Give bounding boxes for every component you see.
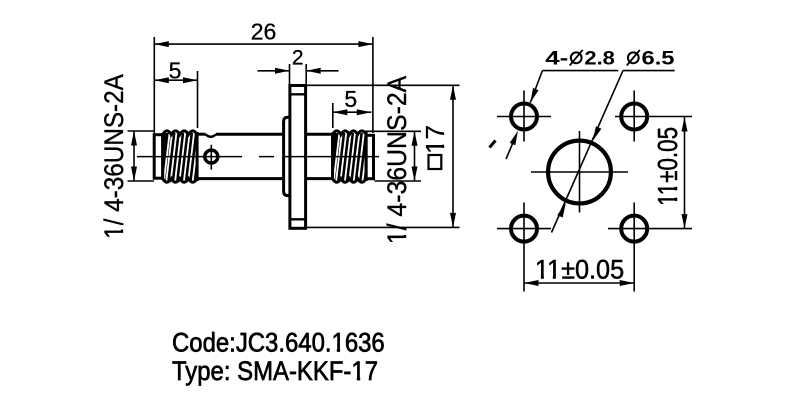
svg-text:17: 17 <box>420 125 450 154</box>
svg-text:11±0.05: 11±0.05 <box>535 256 624 285</box>
end view: hole top-right <box>615 91 692 142</box>
label 1/4-36UNS-2A left <box>100 73 129 239</box>
leader 4-dia2.8 <box>506 71 542 159</box>
dimension 26 <box>154 18 373 133</box>
svg-text:11±0.05: 11±0.05 <box>653 127 684 206</box>
dimension 11 vertical <box>653 117 688 229</box>
vent notch on body top <box>206 134 217 137</box>
svg-text:5: 5 <box>344 86 357 112</box>
right thread <box>333 131 369 182</box>
dimension square 17 <box>306 85 460 227</box>
svg-text:6.5: 6.5 <box>642 48 675 70</box>
label 4-dia2.8 <box>542 48 618 71</box>
end view: hole bottom-right <box>608 203 692 292</box>
dimension 5 right <box>333 86 372 128</box>
right thread diameter dimension <box>364 131 421 181</box>
label 1/4-36UNS-2A right <box>383 75 412 244</box>
svg-text:Type: SMA-KKF-17: Type: SMA-KKF-17 <box>172 357 378 387</box>
svg-text:26: 26 <box>251 18 277 44</box>
stray tick mark <box>490 141 496 148</box>
svg-text:2.8: 2.8 <box>584 48 615 70</box>
right end cap <box>366 135 373 178</box>
small hole on body <box>205 145 218 170</box>
code text <box>172 328 385 358</box>
svg-text:Code:JC3.640.1636: Code:JC3.640.1636 <box>172 328 385 358</box>
centerline side view <box>137 156 379 158</box>
end view: hole bottom-left <box>497 203 551 292</box>
dimension 2 (flange) <box>258 47 339 84</box>
label dia6.5 <box>623 48 675 71</box>
svg-text:1/ 4-36UNS-2A: 1/ 4-36UNS-2A <box>100 73 129 239</box>
svg-text:2: 2 <box>292 47 304 70</box>
body left section <box>197 134 285 178</box>
body right section <box>306 134 333 178</box>
svg-text:5: 5 <box>169 58 182 84</box>
dimension 5 left <box>154 58 197 129</box>
leader dia6.5 <box>552 71 624 233</box>
end view: center hole <box>531 131 628 213</box>
flange <box>290 86 306 229</box>
dimension 11 horizontal <box>524 256 634 286</box>
svg-text:1/ 4-36UNS-2A: 1/ 4-36UNS-2A <box>383 75 412 244</box>
shoulder ring left of flange <box>284 117 290 195</box>
left thread diameter dimension <box>128 131 155 181</box>
left thread <box>163 131 199 182</box>
left end cap <box>154 135 163 179</box>
type text <box>172 357 378 387</box>
end view: hole top-left <box>497 91 551 142</box>
svg-text:4-: 4- <box>545 48 568 70</box>
